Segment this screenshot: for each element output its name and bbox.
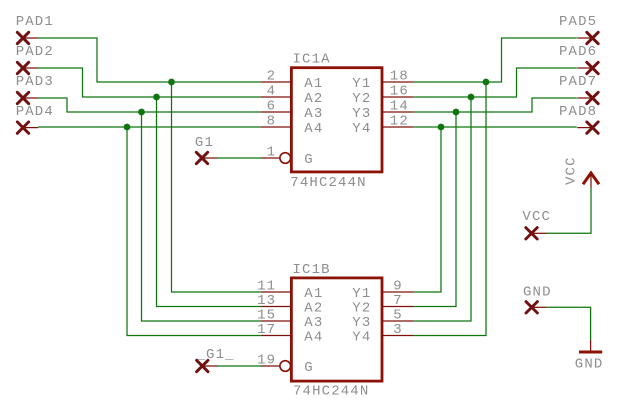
svg-text:VCC: VCC	[522, 209, 551, 225]
wire branch to IC1B pin 3	[413, 82, 486, 336]
IC1A pin 14 (Y3)	[383, 111, 414, 113]
junction node A4	[124, 124, 131, 131]
IC IC1B box	[291, 278, 382, 381]
IC1A pin 6 (A3)	[261, 111, 291, 113]
junction node Y2	[468, 94, 475, 101]
IC1B pin 7 (Y2)	[383, 306, 414, 308]
IC1A pin 4 (A2)	[261, 96, 291, 98]
svg-text:14: 14	[390, 99, 409, 115]
wire G1_ to IC1B pin 19	[217, 365, 262, 367]
svg-text:A4: A4	[304, 329, 323, 345]
svg-text:4: 4	[267, 84, 277, 100]
wire IC1A pin 12 to PAD8	[413, 126, 576, 128]
pad PAD8	[587, 122, 598, 133]
IC1A pin 8 (A4)	[261, 126, 291, 128]
wire branch to IC1B pin 9	[413, 127, 441, 292]
svg-text:Y1: Y1	[352, 76, 371, 92]
junction node Y1	[483, 79, 490, 86]
IC1B pin 17 (A4)	[261, 335, 291, 337]
svg-text:PAD5: PAD5	[559, 14, 597, 30]
junction node A3	[138, 109, 145, 116]
svg-text:17: 17	[257, 322, 276, 338]
wire branch to IC1B pin 13	[157, 97, 261, 307]
pad PAD5	[587, 32, 598, 43]
svg-text:74HC244N: 74HC244N	[290, 175, 366, 191]
svg-text:PAD7: PAD7	[559, 74, 597, 90]
junction node A2	[153, 94, 160, 101]
svg-text:PAD1: PAD1	[16, 14, 54, 30]
junction node Y4	[438, 124, 445, 131]
wire IC1A pin 18 to PAD5	[413, 38, 576, 82]
svg-text:A3: A3	[304, 106, 323, 122]
svg-text:A2: A2	[304, 91, 323, 107]
IC1A pin 2 (A1)	[261, 81, 291, 83]
svg-text:PAD2: PAD2	[16, 44, 54, 60]
wire PAD3 to IC1A pin 6	[38, 98, 261, 112]
pad G1_	[197, 360, 208, 371]
IC1B pin 13 (A2)	[261, 306, 291, 308]
svg-text:G: G	[304, 152, 314, 168]
pad PAD1	[17, 32, 28, 43]
svg-text:6: 6	[267, 99, 277, 115]
wire IC1A pin 16 to PAD6	[413, 68, 576, 97]
IC1A pin 12 (Y4)	[383, 126, 414, 128]
wire PAD2 to IC1A pin 4	[38, 68, 261, 97]
wire branch to IC1B pin 7	[413, 112, 456, 307]
svg-text:Y4: Y4	[352, 121, 371, 137]
junction node A1	[168, 79, 175, 86]
svg-text:IC1B: IC1B	[293, 262, 331, 278]
svg-text:A1: A1	[304, 76, 323, 92]
svg-text:PAD4: PAD4	[16, 104, 54, 120]
svg-text:PAD8: PAD8	[559, 104, 597, 120]
svg-text:G1: G1	[195, 135, 214, 151]
svg-text:PAD3: PAD3	[16, 74, 54, 90]
svg-text:74HC244N: 74HC244N	[293, 384, 369, 400]
pad PAD2	[17, 62, 28, 73]
pad GND	[526, 302, 537, 313]
wire VCC pad to VCC symbol	[547, 188, 592, 234]
IC IC1A box	[291, 68, 382, 172]
pad PAD6	[587, 62, 598, 73]
svg-text:IC1A: IC1A	[293, 52, 331, 68]
IC1B pin 19 (G) with inversion bubble	[261, 365, 280, 367]
wire branch to IC1B pin 5	[413, 97, 471, 321]
svg-text:8: 8	[267, 114, 277, 130]
wire branch to IC1B pin 17	[127, 127, 261, 336]
svg-text:Y4: Y4	[352, 329, 371, 345]
IC1B pin 5 (Y3)	[383, 320, 414, 322]
IC1B pin 9 (Y1)	[383, 291, 414, 293]
wire branch to IC1B pin 15	[142, 112, 261, 321]
svg-text:VCC: VCC	[564, 156, 580, 185]
wire PAD1 to IC1A pin 2	[38, 38, 261, 82]
IC1B pin 3 (Y4)	[383, 335, 414, 337]
wire PAD4 to IC1A pin 8	[38, 126, 261, 128]
IC1A pin 16 (Y2)	[383, 96, 414, 98]
svg-text:12: 12	[390, 114, 409, 130]
wire G1 to IC1A pin 1	[217, 157, 262, 159]
svg-text:1: 1	[267, 145, 277, 161]
svg-text:A4: A4	[304, 121, 323, 137]
IC1A pin 1 (G) with inversion bubble	[261, 157, 280, 159]
pad G1	[196, 152, 207, 163]
wire IC1A pin 14 to PAD7	[413, 98, 576, 112]
IC1B pin 11 (A1)	[261, 291, 291, 293]
svg-text:GND: GND	[523, 284, 552, 300]
IC1A pin 18 (Y1)	[383, 81, 414, 83]
svg-text:Y3: Y3	[352, 106, 371, 122]
pad PAD3	[17, 92, 28, 103]
svg-text:18: 18	[390, 69, 409, 85]
pad PAD7	[587, 92, 598, 103]
ground symbol GND	[590, 340, 592, 351]
svg-text:_G1_: _G1_	[196, 347, 235, 363]
svg-text:2: 2	[267, 69, 277, 85]
svg-text:GND: GND	[575, 356, 604, 372]
svg-text:G: G	[304, 360, 314, 376]
IC1B pin 15 (A3)	[261, 320, 291, 322]
svg-text:PAD6: PAD6	[559, 44, 597, 60]
power symbol VCC arrow	[583, 173, 599, 184]
svg-text:3: 3	[393, 322, 403, 338]
wire branch to IC1B pin 11	[172, 82, 261, 292]
pad PAD4	[17, 122, 28, 133]
junction node Y3	[453, 109, 460, 116]
svg-text:Y2: Y2	[352, 91, 371, 107]
pad VCC	[526, 228, 537, 239]
svg-text:16: 16	[390, 84, 409, 100]
wire GND pad to GND symbol	[547, 307, 591, 340]
